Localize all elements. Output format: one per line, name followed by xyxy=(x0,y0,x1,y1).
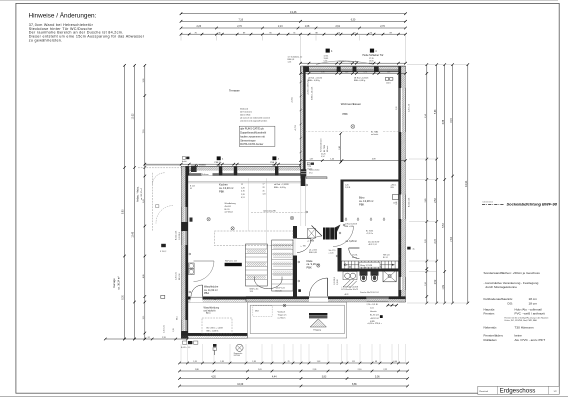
svg-text:ca. 36,34 m²: ca. 36,34 m² xyxy=(117,276,120,289)
right extension lines xyxy=(407,64,468,66)
svg-text:B,255 2,26: B,255 2,26 xyxy=(408,198,410,207)
south wall wing xyxy=(181,333,247,336)
svg-text:76: 76 xyxy=(195,32,197,34)
terrace edge lines xyxy=(145,163,181,165)
svg-text:= 1,05: = 1,05 xyxy=(329,252,334,254)
svg-text:+2,055 2,26 B,255: +2,055 2,26 B,255 xyxy=(307,79,309,95)
svg-text:1,08: 1,08 xyxy=(305,26,310,28)
svg-text:2,35 1,01: 2,35 1,01 xyxy=(164,325,166,333)
zuluft blob redraw xyxy=(189,165,198,173)
svg-text:DN 100: DN 100 xyxy=(234,355,240,357)
svg-text:3,11: 3,11 xyxy=(143,316,145,320)
leader winddichtung xyxy=(316,60,372,64)
small dim row porch right xyxy=(387,304,398,307)
wohnen inner dim row xyxy=(299,72,407,75)
svg-text:Anbau / Heizu.: Anbau / Heizu. xyxy=(136,186,139,202)
svg-text:Schiebeelement: Schiebeelement xyxy=(320,138,323,152)
bottom extension lines xyxy=(180,344,182,362)
svg-text:1,38: 1,38 xyxy=(252,361,256,363)
buero north wall xyxy=(341,180,399,182)
svg-text:1,63: 1,63 xyxy=(317,361,321,363)
svg-text:BL 24: BL 24 xyxy=(383,257,388,259)
inner vert dim wohnen xyxy=(339,132,342,163)
legend sockelabdichtung xyxy=(482,202,558,207)
svg-text:1,26: 1,26 xyxy=(193,361,197,363)
svg-text:4,44: 4,44 xyxy=(272,377,277,379)
wohnen west wall xyxy=(301,66,306,178)
svg-text:88,5 14: 88,5 14 xyxy=(179,274,181,280)
svg-text:Winddichtung vor dem: Winddichtung vor dem xyxy=(339,60,359,63)
svg-text:+,- 786: +,- 786 xyxy=(300,246,306,248)
elektro panel xyxy=(323,228,337,240)
svg-text:EG:: EG: xyxy=(508,297,513,301)
svg-text:B 70 Dusche 90x75: B 70 Dusche 90x75 xyxy=(341,289,358,291)
svg-text:1,44: 1,44 xyxy=(330,159,334,161)
svg-text:2,52: 2,52 xyxy=(435,198,437,203)
closet right xyxy=(272,240,293,291)
bath outlet row xyxy=(349,266,351,268)
svg-text:2,26 1,01: 2,26 1,01 xyxy=(176,272,178,280)
svg-text:3,03: 3,03 xyxy=(143,79,145,83)
wc xyxy=(360,272,368,282)
svg-text:Optionaling HD: Optionaling HD xyxy=(263,209,276,212)
svg-text:B,065 + 1,3: B,065 + 1,3 xyxy=(181,347,190,349)
svg-text:2,10: 2,10 xyxy=(358,369,362,371)
svg-text:Haustür: Haustür xyxy=(370,310,377,313)
dashed anbau boundary xyxy=(151,173,153,231)
svg-text:PBK: PBK xyxy=(359,203,364,207)
svg-text:DG:: DG: xyxy=(508,301,514,305)
svg-text:14,31: 14,31 xyxy=(464,180,468,187)
svg-text:2,40: 2,40 xyxy=(425,199,427,203)
dashed axis wohnen xyxy=(305,130,369,132)
east wall marks xyxy=(407,247,410,250)
svg-text:zu gewährleisten.: zu gewährleisten. xyxy=(29,39,63,43)
svg-text:26: 26 xyxy=(338,32,340,34)
svg-text:74: 74 xyxy=(293,32,295,34)
svg-text:5,01: 5,01 xyxy=(143,199,145,203)
svg-text:Fenster/läden:: Fenster/läden: xyxy=(484,334,504,338)
svg-text:2,76: 2,76 xyxy=(321,72,324,74)
sliding door junction xyxy=(307,163,328,179)
svg-text:am Wand: am Wand xyxy=(225,212,233,214)
east wall xyxy=(399,66,406,302)
svg-text:WaPa-Tec 124: WaPa-Tec 124 xyxy=(225,261,237,263)
svg-text:RUHS-CAT/6-Center: RUHS-CAT/6-Center xyxy=(240,143,263,146)
svg-text:2,20: 2,20 xyxy=(425,239,427,243)
svg-text:7,16: 7,16 xyxy=(239,19,244,21)
top extension lines xyxy=(180,35,182,40)
svg-text:2,26 B: 2,26 B xyxy=(345,187,351,189)
svg-text:Abst.: Abst. xyxy=(206,312,211,315)
anluft marks above corner xyxy=(182,157,189,164)
svg-text:Anluft: Anluft xyxy=(182,160,187,163)
ceiling outlets kitchen xyxy=(207,218,210,221)
svg-text:1,26: 1,26 xyxy=(173,328,175,332)
svg-text:Rollladen:: Rollladen: xyxy=(484,338,498,342)
svg-text:2,76: 2,76 xyxy=(380,26,385,28)
svg-text:Erdgeschoss: Erdgeschoss xyxy=(500,387,536,394)
svg-text:24/7 stroleche: 24/7 stroleche xyxy=(240,111,252,114)
svg-text:2,35: 2,35 xyxy=(162,337,166,339)
porch marks xyxy=(283,304,286,307)
svg-text:ca. 18,17 m²: ca. 18,17 m² xyxy=(140,188,143,200)
svg-text:5,06: 5,06 xyxy=(375,377,380,379)
svg-text:+/- 7868: +/- 7868 xyxy=(307,240,314,242)
svg-text:1,89: 1,89 xyxy=(443,284,445,289)
svg-text:BBH + 0,88 lg: BBH + 0,88 lg xyxy=(308,80,320,82)
north wall wohnen xyxy=(301,66,406,72)
bottom dimension chains xyxy=(178,361,409,364)
svg-text:Wandbehang: Wandbehang xyxy=(225,203,236,205)
junction dark pocket xyxy=(301,169,307,176)
svg-text:3,83: 3,83 xyxy=(322,377,327,379)
svg-text:8,89: 8,89 xyxy=(123,209,125,214)
svg-text:Trage um: Trage um xyxy=(278,314,287,317)
svg-text:240 im Wele: 240 im Wele xyxy=(240,115,250,117)
svg-text:Sonderwandflächen: +50cm je G: Sonderwandflächen: +50cm je Geschoss xyxy=(484,271,541,275)
wohnen west wall module ticks xyxy=(300,81,302,83)
waschkueche big arc xyxy=(194,261,215,282)
buero door wedge xyxy=(328,225,354,247)
svg-text:PBK: PBK xyxy=(343,112,348,116)
optionaling dashed xyxy=(251,211,305,213)
svg-text:2,26: 2,26 xyxy=(197,26,202,28)
svg-text:45x124: 45x124 xyxy=(225,206,231,208)
svg-text:2,01: 2,01 xyxy=(258,369,262,371)
svg-text:Alu / PVC - anzu /HFT: Alu / PVC - anzu /HFT xyxy=(515,338,546,342)
svg-text:BL 20: BL 20 xyxy=(225,209,230,211)
kalksandstein label in wall xyxy=(202,173,213,176)
svg-text:2,26: 2,26 xyxy=(241,194,245,196)
shower xyxy=(383,271,396,282)
ceiling outlet wohnen xyxy=(351,125,355,129)
svg-text:76: 76 xyxy=(288,361,290,363)
top dimension chains xyxy=(180,10,407,15)
svg-text:Wohnen/Essen: Wohnen/Essen xyxy=(341,102,362,106)
kitchen axis lines xyxy=(266,178,268,249)
PSE flag 1 xyxy=(215,156,225,171)
buero window detail xyxy=(393,195,399,205)
svg-text:Fußbodenaufbau: Fußbodenaufbau xyxy=(484,297,508,301)
svg-text:durch Montagekolonne: durch Montagekolonne xyxy=(486,285,518,289)
svg-text:BBH 0,88: BBH 0,88 xyxy=(309,252,317,254)
svg-text:18 cm: 18 cm xyxy=(529,297,538,301)
svg-text:K 700,2: K 700,2 xyxy=(160,251,166,253)
svg-text:ab Rod + 2,055/8: ab Rod + 2,055/8 xyxy=(274,184,289,186)
svg-text:89: 89 xyxy=(390,32,392,34)
corridor thin edges xyxy=(304,179,306,227)
left dimension chains xyxy=(123,64,126,340)
buero south outlets xyxy=(345,218,347,221)
svg-text:1,38: 1,38 xyxy=(220,361,224,363)
storage door xyxy=(191,285,203,297)
svg-text:60 breit: 60 breit xyxy=(326,145,329,152)
svg-text:Doppelbrand/klusskmbl: Doppelbrand/klusskmbl xyxy=(240,132,266,135)
svg-text:2,22: 2,22 xyxy=(383,369,387,371)
svg-text:2,26: 2,26 xyxy=(241,187,245,189)
svg-text:18 cm: 18 cm xyxy=(529,301,538,305)
svg-text:ca. 6,29 m²: ca. 6,29 m² xyxy=(346,240,358,243)
big sink curve xyxy=(255,277,283,289)
interior lining line kitchen xyxy=(187,180,301,182)
svg-text:1,13: 1,13 xyxy=(288,61,292,63)
small boxes ne xyxy=(385,78,393,85)
svg-text:+0,50 = 178,0 +: +0,50 = 178,0 + xyxy=(367,323,382,325)
svg-text:45: 45 xyxy=(190,188,192,190)
svg-text:0,885 1,26 2,26: 0,885 1,26 2,26 xyxy=(311,87,313,100)
svg-text:Nebentür:: Nebentür: xyxy=(484,325,498,329)
svg-text:88,5: 88,5 xyxy=(177,316,179,320)
svg-text:70: 70 xyxy=(353,32,355,34)
svg-text:BBH +0,88: BBH +0,88 xyxy=(345,226,354,228)
svg-text:ca 90cm: ca 90cm xyxy=(278,318,286,320)
svg-text:BL-Nr 124: BL-Nr 124 xyxy=(370,313,379,316)
svg-text:1,01 88,5: 1,01 88,5 xyxy=(179,232,181,240)
svg-text:Sternzeinspor: Sternzeinspor xyxy=(240,139,256,142)
svg-text:0,14: 0,14 xyxy=(321,156,325,158)
svg-text:BBH +0,08 lg: BBH +0,08 lg xyxy=(354,80,365,82)
svg-text:88: 88 xyxy=(315,32,317,34)
stairs door xyxy=(349,248,360,259)
entrance door opening xyxy=(309,297,328,303)
svg-text:2,42: 2,42 xyxy=(339,146,341,150)
svg-text:5,14: 5,14 xyxy=(425,114,427,118)
west wall xyxy=(181,166,188,338)
diele east wall xyxy=(338,248,342,272)
entrance left marks xyxy=(298,289,301,292)
misc outlet symbols xyxy=(306,184,308,186)
svg-text:8,30: 8,30 xyxy=(123,295,125,300)
svg-text:auf tanki: auf tanki xyxy=(371,133,379,136)
flag BS4 xyxy=(324,49,334,63)
svg-text:7,64: 7,64 xyxy=(451,237,453,242)
svg-text:10,22: 10,22 xyxy=(133,113,135,119)
svg-text:Hebe Schieber Tür: Hebe Schieber Tür xyxy=(363,54,384,57)
svg-text:BL 120: BL 120 xyxy=(276,291,283,293)
svg-text:6,67: 6,67 xyxy=(451,117,453,122)
ha cluster xyxy=(307,229,316,243)
north wall kitchen xyxy=(181,166,300,175)
svg-text:18stg 17,5/28: 18stg 17,5/28 xyxy=(360,264,373,267)
entrance door xyxy=(309,278,327,297)
svg-text:+2,055: +2,055 xyxy=(292,97,294,103)
svg-text:Terrasse: Terrasse xyxy=(229,88,240,92)
svg-text:17: 17 xyxy=(263,184,265,186)
sheet edge bottom xyxy=(0,396,568,398)
svg-text:BO x BOC + 1,05/8: BO x BOC + 1,05/8 xyxy=(207,328,223,330)
waschkueche door xyxy=(297,239,311,253)
terrace info box xyxy=(239,126,275,146)
svg-text:qfw RUHS-CAT/E qls: qfw RUHS-CAT/E qls xyxy=(240,128,264,131)
svg-text:Kochen: Kochen xyxy=(219,182,228,186)
svg-text:2,76: 2,76 xyxy=(237,26,242,28)
svg-text:Diele: Diele xyxy=(307,259,313,263)
svg-text:1,18: 1,18 xyxy=(345,72,348,74)
svg-text:4,99: 4,99 xyxy=(372,159,376,161)
svg-text:2,61: 2,61 xyxy=(336,26,341,28)
svg-text:PBK: PBK xyxy=(307,266,312,270)
svg-text:Fenster:: Fenster: xyxy=(484,312,495,316)
PSE flag 2 xyxy=(270,156,280,171)
south interior wall west branch xyxy=(188,297,247,300)
svg-text:2,26 x 1,01 BL: 2,26 x 1,01 BL xyxy=(367,304,379,306)
kitchen east wall stub xyxy=(301,176,306,187)
bath sinks xyxy=(343,272,357,280)
sw drain symbols xyxy=(181,341,198,349)
svg-text:1,11: 1,11 xyxy=(352,361,355,363)
spec text block xyxy=(484,271,550,342)
north wall wohnen: sill line xyxy=(301,65,406,67)
svg-text:Kalksan: Kalksan xyxy=(202,174,209,176)
svg-text:1,00: 1,00 xyxy=(394,361,398,363)
south wall main xyxy=(246,297,406,303)
svg-text:Waschkleidung: Waschkleidung xyxy=(204,307,220,309)
wm tr boxes xyxy=(189,263,195,275)
svg-text:Holz /Alu - vollemail: Holz /Alu - vollemail xyxy=(515,307,542,311)
svg-text:4,70: 4,70 xyxy=(241,191,245,193)
svg-text:4,99 2,26: 4,99 2,26 xyxy=(401,100,403,108)
storage dashed box xyxy=(202,318,232,334)
svg-text:B,255 2,26: B,255 2,26 xyxy=(176,231,178,240)
svg-text:2,26: 2,26 xyxy=(396,107,398,111)
porch outline xyxy=(248,302,347,338)
svg-text:Müll: Müll xyxy=(255,311,259,313)
buero west wall xyxy=(341,182,344,223)
waschkueche east wall xyxy=(293,226,297,297)
black sideboard xyxy=(225,263,242,266)
svg-text:PBA: PBA xyxy=(204,292,209,295)
svg-text:74: 74 xyxy=(147,337,149,339)
svg-text:+BCF 1,24: +BCF 1,24 xyxy=(368,244,377,246)
svg-text:1,01: 1,01 xyxy=(370,308,374,310)
svg-text:+2,26 1a: +2,26 1a xyxy=(366,233,373,235)
kalksandstein label redraw xyxy=(202,173,213,176)
svg-text:124: 124 xyxy=(263,194,266,196)
regen circle xyxy=(234,344,243,357)
svg-text:BL 7036: BL 7036 xyxy=(324,145,326,152)
svg-text:4,20: 4,20 xyxy=(211,377,216,379)
svg-text:Büro: Büro xyxy=(359,195,365,199)
svg-text:BBI + 1,008 ls: BBI + 1,008 ls xyxy=(207,330,219,332)
svg-text:1,26: 1,26 xyxy=(396,202,398,206)
wohnen bottom dim row xyxy=(299,159,407,162)
sheet edge top xyxy=(0,0,558,2)
svg-text:70: 70 xyxy=(370,32,372,34)
svg-text:6,30: 6,30 xyxy=(351,19,356,21)
svg-text:und oben wird ungewollt werden: und oben wird ungewollt werden xyxy=(240,120,267,123)
svg-text:Küche, WC, WOZNK, Bad, PMR, SA: Küche, WC, WOZNK, Bad, PMR, SAB xyxy=(505,319,538,322)
svg-text:2,88: 2,88 xyxy=(195,369,199,371)
north wall kitchen: sill xyxy=(144,163,302,166)
svg-text:0,51: 0,51 xyxy=(241,197,245,199)
svg-text:2,13: 2,13 xyxy=(278,26,283,28)
lintel dimension row xyxy=(299,62,407,65)
svg-text:ca. 13,20 m²: ca. 13,20 m² xyxy=(219,186,234,190)
dashed garage arc xyxy=(156,206,173,224)
bidet xyxy=(371,272,379,282)
outlet symbols east xyxy=(399,229,401,231)
svg-text:1,96: 1,96 xyxy=(387,72,390,74)
svg-text:124 D: 124 D xyxy=(386,82,391,84)
svg-text:5,66: 5,66 xyxy=(435,109,437,114)
svg-text:28: 28 xyxy=(263,187,265,189)
svg-text:7,19: 7,19 xyxy=(143,130,145,134)
dashed door arc west xyxy=(152,173,164,185)
svg-text:40 cm: 40 cm xyxy=(352,257,357,259)
svg-text:PBK: PBK xyxy=(219,190,224,194)
svg-text:+BCF 124: +BCF 124 xyxy=(276,288,286,290)
svg-text:96: 96 xyxy=(269,32,271,34)
svg-text:4,06: 4,06 xyxy=(143,274,145,278)
svg-text:Planinhalt: Planinhalt xyxy=(479,390,488,393)
svg-text:ab wunsch wie nebenstelle setz: ab wunsch wie nebenstelle setzend xyxy=(240,117,270,120)
svg-text:45: 45 xyxy=(263,190,265,192)
stairs xyxy=(342,261,399,269)
svg-text:Eingang: Eingang xyxy=(314,329,321,331)
svg-text:13,45: 13,45 xyxy=(133,231,135,237)
west small post mark xyxy=(190,218,193,222)
svg-text:8,86: 8,86 xyxy=(352,383,357,386)
drain stack xyxy=(213,344,217,355)
svg-text:2,26: 2,26 xyxy=(313,369,317,371)
notes text xyxy=(29,23,145,43)
svg-text:Dusche 90x75 BL 124: Dusche 90x75 BL 124 xyxy=(360,292,379,294)
svg-text:WaPa-Tec: WaPa-Tec xyxy=(250,288,259,290)
svg-text:ca. 13,28 m²: ca. 13,28 m² xyxy=(359,199,374,203)
svg-text:13,46: 13,46 xyxy=(290,10,297,14)
dashed furniture box xyxy=(214,231,293,246)
svg-text:Haustür:: Haustür: xyxy=(484,307,496,311)
svg-text:Infoboard: Infoboard xyxy=(240,108,248,111)
corridor second door arc xyxy=(312,226,323,241)
svg-text:1,76: 1,76 xyxy=(364,72,367,74)
title block xyxy=(478,386,559,394)
closet left xyxy=(246,244,268,286)
svg-text:keine: keine xyxy=(515,334,523,338)
svg-text:BBH + 0,08 lg: BBH + 0,08 lg xyxy=(274,187,286,189)
svg-text:haufen zusammen mit: haufen zusammen mit xyxy=(240,135,265,138)
svg-text:+BCF 124: +BCF 124 xyxy=(370,318,379,320)
bath north wall xyxy=(342,269,399,272)
svg-text:Sockelabdichtung BWF-98: Sockelabdichtung BWF-98 xyxy=(507,202,558,207)
svg-text:T30 Hörmann: T30 Hörmann xyxy=(515,325,534,329)
shower glass xyxy=(343,280,356,289)
svg-text:+0,713: +0,713 xyxy=(295,125,297,131)
right dimension chains xyxy=(464,63,469,304)
svg-text:10,09: 10,09 xyxy=(237,383,244,386)
porch left dashed box xyxy=(253,306,272,317)
zuluft symbol xyxy=(189,164,209,173)
svg-text:100 100 100 10: 100 100 100 10 xyxy=(483,202,494,204)
svg-text:2,37: 2,37 xyxy=(435,238,437,243)
svg-text:89: 89 xyxy=(243,32,245,34)
svg-text:2,52: 2,52 xyxy=(435,279,437,284)
svg-text:12: 12 xyxy=(241,184,243,186)
entry steps xyxy=(309,313,327,331)
svg-text:Vordach: Vordach xyxy=(278,310,286,313)
svg-text:68: 68 xyxy=(375,361,377,363)
svg-text:Garage: Garage xyxy=(112,278,116,288)
svg-text:5,53: 5,53 xyxy=(443,223,445,228)
svg-text:2,26 1,26: 2,26 1,26 xyxy=(408,104,410,112)
svg-text:2,26 B: 2,26 B xyxy=(337,279,339,285)
svg-text:6,88: 6,88 xyxy=(443,119,445,124)
svg-text:1,37: 1,37 xyxy=(310,159,314,161)
svg-text:PVC - weiß / anthrazit: PVC - weiß / anthrazit xyxy=(515,312,545,316)
small mark garage xyxy=(161,244,166,247)
stair label xyxy=(359,262,380,267)
